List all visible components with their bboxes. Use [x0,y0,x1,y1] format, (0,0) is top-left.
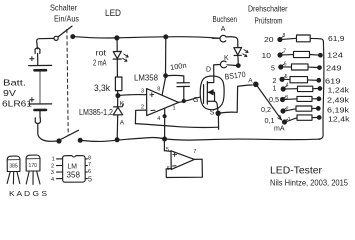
label wiper A [248,78,253,85]
svg-text:LED-Tester: LED-Tester [270,165,322,177]
label DIP pin 4 [51,177,54,183]
switch mechanical link dashed [67,30,68,136]
wire contact2 to resistor [285,109,296,111]
svg-text:9V: 9V [3,88,16,98]
resistor R7 2.49k [297,96,312,101]
svg-text:4: 4 [51,177,54,183]
transistor Q1 bulk lead with arrow [207,90,214,102]
wire node K to op-amp pin3 [120,94,147,97]
svg-text:10: 10 [262,53,272,60]
svg-text:6: 6 [88,169,91,175]
resistor R6 1.24k [298,86,313,91]
socket J1 anode [212,35,226,42]
label op-amp pin 1 [173,105,176,111]
label DIP pin 3 [51,170,54,176]
svg-text:3: 3 [285,95,288,101]
node rail r5 [318,87,322,91]
svg-text:61,9: 61,9 [328,34,345,43]
node rotary contact 8 (20mA) [278,37,283,42]
wire node to socket K [227,64,237,67]
label 2 [273,78,277,85]
battery plus sign cell2 [30,98,34,102]
svg-text:mA: mA [274,126,285,133]
node rotary contact 5 (2mA) [280,76,285,81]
wire resistor to node K [117,91,119,94]
resistor R5 619 [290,77,308,83]
label author Nils Hintze 2003 2015 [270,178,348,188]
svg-text:4: 4 [157,116,160,122]
switch S1b on/off bottom pole [57,130,82,143]
transistor Q1 BS170 body circle [200,76,224,110]
svg-text:1: 1 [273,86,277,93]
svg-text:G: G [193,97,198,104]
label op-amp pin 8 [157,86,160,92]
svg-text:6LR61: 6LR61 [2,99,32,109]
node rotary contact 6 (5mA) [279,64,284,69]
svg-text:Ein/Aus: Ein/Aus [54,14,79,24]
label 0,2 [261,107,271,114]
svg-text:LM385-1,2: LM385-1,2 [79,108,113,117]
node rail r3 [318,66,322,70]
resistor R1 3.3k [115,77,122,91]
label DIP pin 2 [51,163,54,169]
label value 61,9 [328,34,345,43]
svg-text:2 mA: 2 mA [93,59,107,68]
wire source to rotary wiper staircase [220,85,252,113]
label K A D G S [9,189,47,198]
wire contact5 to resistor [284,78,290,80]
node rotary contact 1 (0.1mA) [283,119,288,124]
node rotary contact 3 (0.5mA) [281,97,286,102]
svg-text:4: 4 [286,83,289,89]
transistor Q1 gate bar [203,85,205,104]
wire pin8 dot to triangle [162,78,165,95]
wire resistor R9 to rail [312,117,317,119]
label Buchsen [213,14,238,24]
label pin G [193,97,198,104]
svg-text:Batt.: Batt. [3,78,26,88]
label LM385-1,2 [79,108,113,117]
svg-text:K: K [224,55,229,62]
wire op-amp pin8 power [165,39,167,76]
label pin D [206,67,211,74]
svg-text:1: 1 [52,157,55,163]
label op-amp2 pin 7 [193,149,196,155]
svg-text:8: 8 [283,33,286,39]
svg-text:0,1: 0,1 [265,118,275,125]
wire op-amp2 pin5 from rail [163,141,165,151]
label rotary pin 4 [286,83,289,89]
rotary switch wiper arm [257,86,281,120]
wire contact3 to resistor [285,98,297,101]
svg-text:5: 5 [166,147,169,153]
wire resistor R3 to rail [310,54,319,57]
label rotary pin 8 [283,33,286,39]
svg-text:K: K [120,100,125,107]
label K of LM385 [120,100,125,107]
svg-text:8: 8 [88,156,91,162]
label DIP pin 8 [88,156,91,162]
wire contact4 to resistor [285,88,297,90]
wire drain up to socket K [214,65,220,77]
svg-text:2: 2 [51,163,54,169]
label op-amp pin 3 [141,88,144,94]
svg-text:S: S [210,110,215,117]
node LM385 anode to bottom rail [115,138,119,142]
node rotary contact 7 (10mA) [278,52,283,57]
wire contact1 to resistor [287,118,297,122]
transistor package TO-92 170 [26,155,40,185]
label op-amp pin 4 [157,116,160,122]
transistor Q1 channel bar [206,82,208,105]
resistor R2 61.9 [297,35,311,42]
svg-text:0,2: 0,2 [261,107,271,114]
label 0,5 [269,97,279,104]
label 3,3k [94,83,110,93]
label rotary pin 7 [283,48,286,54]
wire right rail vertical [319,42,324,140]
label value 6,19k [327,106,349,115]
label rotary pin 1 [288,117,291,123]
node junction top rail pin8 [164,35,168,39]
label BS170 [224,70,246,82]
node rotary contact 2 (0.2mA) [281,108,286,113]
wire op-amp output to gate [179,97,200,102]
transistor package TO-92 385 [7,156,20,184]
svg-text:170: 170 [29,163,38,169]
label 385 on package [9,164,18,170]
label value 619 [325,77,341,86]
wire resistor R6 to rail [313,88,318,90]
label LM358 [134,74,159,83]
svg-text:3,3k: 3,3k [94,83,110,93]
svg-text:1,24k: 1,24k [328,86,350,95]
wire LED branch top [116,40,118,51]
wire op-amp pin4 to bottom rail [164,108,166,139]
LED DUT under test [234,48,248,57]
resistor R9 12.4k [297,115,312,120]
wire LED to resistor [116,59,118,77]
svg-text:Prüfstrom: Prüfstrom [255,16,283,26]
wire contact6 to resistor [283,66,292,68]
svg-text:rot: rot [96,49,107,58]
label 170 on package [29,163,38,169]
label value 249 [326,64,342,73]
node DUT cathode junction [237,64,241,68]
svg-text:A: A [120,120,125,127]
transistor Q1 drain lead internal [207,76,213,82]
capacitor C1 100n [177,83,189,101]
label 6LR61 [2,99,32,109]
svg-text:3: 3 [51,170,54,176]
wire bottom rail left [50,140,117,141]
wire op-amp pin2 feedback left [135,110,146,124]
label value 1,24k [328,86,350,95]
wire resistor R2 to rail [310,38,323,41]
svg-text:2: 2 [141,105,144,111]
LED D1 red indicator [113,51,128,61]
label 10 [262,53,272,60]
switch S1a on/off top pole [54,26,75,40]
op-amp U1a LM358 [147,89,179,116]
node rail r4 [317,79,321,83]
socket J2 cathode [220,61,226,68]
wire contact7 to resistor [282,54,293,56]
svg-text:3: 3 [141,88,144,94]
label 5 [271,66,275,73]
resistor R3 124 [294,51,310,57]
node K reference junction [116,94,120,98]
wire source dot down to feedback [217,115,219,129]
svg-text:20: 20 [264,37,274,44]
svg-text:5: 5 [285,74,288,80]
node pin4 small joint [163,115,166,118]
label 1 [273,86,277,93]
svg-text:619: 619 [325,77,341,86]
label Ein/Aus [54,14,79,24]
label Pruefstrom [255,16,283,26]
label DIP pin 6 [88,169,91,175]
label op-amp pin 2 [141,105,144,111]
label Drehschalter [248,4,288,14]
node rail r6 [317,97,321,101]
svg-text:12,4k: 12,4k [328,115,350,124]
node rotary wiper pivot [254,82,258,86]
label 9V [3,88,16,98]
label Schalter [50,3,77,13]
svg-text:BS170: BS170 [224,70,246,82]
label rotary pin 2 [286,106,289,112]
svg-text:5: 5 [88,177,92,184]
label value 2,49k [327,96,349,105]
wire resistor R4 to rail [308,66,318,68]
IC package U3 LM358 DIP-8 [57,156,88,183]
svg-text:7: 7 [283,48,286,54]
svg-text:D: D [206,67,211,74]
label DIP pin 5 [88,177,92,184]
wire socket A to DUT LED [226,37,238,48]
node junction top rail to LED branch [115,36,119,40]
svg-text:6,19k: 6,19k [327,106,349,115]
svg-text:385: 385 [9,164,18,170]
wire resistor R5 to rail [308,79,317,81]
wire cap top lead [167,75,183,82]
svg-text:0,5: 0,5 [269,97,279,104]
node junction pin8 cap [164,74,168,78]
svg-text:8: 8 [157,86,160,92]
svg-text:A: A [248,78,253,85]
resistor R8 6.19k [296,106,312,111]
svg-text:Buchsen: Buchsen [213,14,238,24]
label value 124 [327,51,343,60]
svg-text:LED: LED [105,8,121,19]
label value 12,4k [328,115,350,124]
diode U2 LM385-1.2 reference [113,104,123,139]
svg-text:K A D G S: K A D G S [9,189,47,198]
label 358 in DIP [67,170,81,180]
label DIP pin 1 [52,157,55,163]
op-amp U1b LM358 follower [164,151,194,170]
label rot [96,49,107,58]
svg-text:6: 6 [284,62,287,68]
svg-text:2: 2 [286,106,289,112]
wire contact8 to resistor [282,38,296,39]
node rail r2 [319,53,323,57]
svg-text:Nils Hintze, 2003, 2015: Nils Hintze, 2003, 2015 [270,178,348,188]
svg-text:Drehschalter: Drehschalter [248,4,288,14]
svg-text:358: 358 [67,170,81,180]
label socket A [221,26,226,33]
svg-text:5: 5 [271,66,275,73]
wire node K down to LM385 [117,97,119,106]
svg-text:100n: 100n [170,61,188,72]
label rotary pin 6 [284,62,287,68]
transistor Q1 source lead internal [207,101,218,111]
svg-text:2,49k: 2,49k [327,96,349,105]
label 20 [264,37,274,44]
label op-amp2 pin 6 [167,166,170,172]
label Batt. [3,78,26,88]
wire bottom rail middle [117,138,320,141]
svg-text:1: 1 [288,117,291,123]
svg-text:Schalter: Schalter [50,3,77,13]
svg-text:1: 1 [173,105,176,111]
label rotary pin 3 [285,95,288,101]
wire top rail [75,37,219,39]
node junction cap to gate wire [182,100,185,103]
label A of LM385 [120,120,125,127]
label rotary pin 5 [285,74,288,80]
node rail r8 [317,116,321,120]
label pin S [210,110,215,117]
label op-amp2 pin 5 [166,147,169,153]
wire battery plus to switch [37,38,54,48]
label socket K [224,55,229,62]
svg-text:6: 6 [167,166,170,172]
wire DUT LED to node [237,56,239,65]
wire feedback line horizontal [135,124,218,128]
svg-text:2: 2 [273,78,277,85]
label LED [105,8,121,19]
svg-text:249: 249 [326,64,342,73]
resistor R4 249 [292,64,309,70]
label 0,1 [265,118,275,125]
svg-text:LM358: LM358 [134,74,159,83]
wire resistor R8 to rail [312,107,317,109]
node rotary contact 4 (1mA) [281,86,286,91]
node S source junction [216,111,220,115]
battery plus sign cell1 [30,57,34,61]
label LM in DIP [68,164,78,171]
svg-text:A: A [221,26,226,33]
node rail r7 [317,107,321,111]
battery BT1 [29,48,52,141]
label 100n [170,61,188,72]
wire resistor R7 to rail [312,98,317,100]
wire op-amp2 feedback loop [166,159,202,177]
node pin4 bottom rail junction [163,137,167,141]
label 2 mA [93,59,107,68]
svg-text:124: 124 [327,51,343,60]
svg-text:7: 7 [88,162,91,168]
svg-text:7: 7 [193,149,196,155]
label mA [274,126,285,133]
label title LED-Tester [270,165,322,177]
label DIP pin 7 [88,162,91,168]
